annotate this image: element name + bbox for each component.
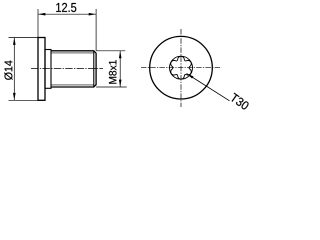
outer circle: flange diameter (end view) bbox=[150, 36, 213, 99]
arrowhead top (M8x1) bbox=[119, 51, 122, 58]
flange head outline bbox=[38, 38, 45, 101]
arrowhead right (12.5) bbox=[89, 13, 96, 16]
thread root line bottom (thin) bbox=[51, 84, 94, 86]
chamfer edge line at thread end bbox=[93, 51, 95, 87]
arrowhead left (12.5) bbox=[38, 13, 45, 16]
extension line top for M8x1 bbox=[96, 50, 125, 52]
inner circle: thread diameter (end view) bbox=[170, 56, 193, 79]
dimension text 12.5 bbox=[56, 3, 76, 12]
threaded shank crest outline with chamfered end bbox=[51, 51, 96, 87]
torx T30 socket recess bbox=[171, 56, 192, 79]
extension line right for dim 12.5 bbox=[95, 9, 97, 51]
extension line left for dim 12.5 bbox=[37, 9, 39, 38]
horizontal centerline (end view, dash-dot) bbox=[141, 67, 222, 69]
extension line bottom for dia 14 bbox=[9, 99, 39, 101]
arrowhead top (dia 14) bbox=[13, 38, 16, 45]
extension line bottom for M8x1 bbox=[96, 86, 127, 88]
centerline: bolt axis (dash-dot) bbox=[31, 68, 103, 70]
thread root line top (thin) bbox=[51, 52, 94, 54]
arrowhead bottom (M8x1) bbox=[119, 80, 122, 87]
arrowhead of T30 leader bbox=[187, 74, 194, 79]
vertical centerline (end view, dash-dot) bbox=[180, 29, 182, 107]
dimension line M8x1 bbox=[119, 51, 121, 87]
dimension line 12.5 bbox=[38, 13, 96, 15]
dimension text M8x1 (rotated 90 ccw) bbox=[109, 60, 117, 84]
leader line for T30 bbox=[187, 74, 230, 101]
label text T30 (rotated along leader) bbox=[232, 93, 249, 110]
collar outline bbox=[45, 50, 51, 89]
extension line top for dia 14 bbox=[9, 37, 39, 39]
dimension text dia 14 (rotated 90 ccw) bbox=[4, 61, 12, 80]
dimension line dia 14 bbox=[13, 38, 15, 101]
arrowhead bottom (dia 14) bbox=[13, 93, 16, 100]
